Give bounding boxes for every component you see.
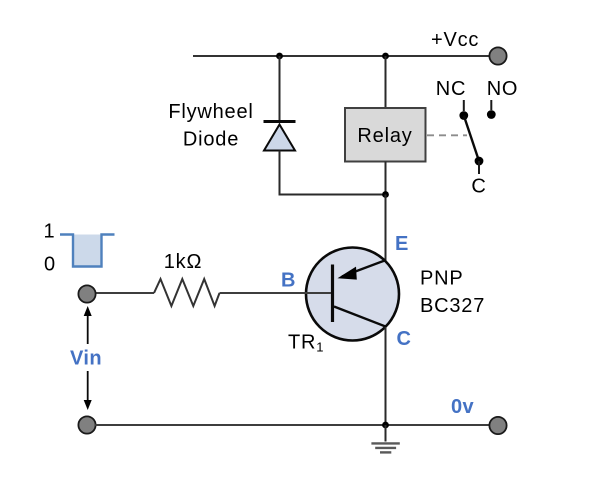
svg-text:1kΩ: 1kΩ <box>164 251 202 273</box>
node junction at relay branch <box>382 53 389 60</box>
svg-text:0: 0 <box>44 254 56 276</box>
svg-text:C: C <box>471 176 486 198</box>
terminal 0v <box>489 417 506 434</box>
Vin double arrow lower <box>87 371 89 404</box>
terminal input Vin <box>78 285 95 302</box>
switch blade NC to C <box>464 116 479 162</box>
svg-text:0v: 0v <box>451 396 475 418</box>
resistor R1 <box>154 279 220 306</box>
terminal +Vcc <box>489 47 506 64</box>
wire base to resistor <box>95 292 154 294</box>
wire diode anode down and right to junction <box>280 151 386 195</box>
node junction at diode branch <box>276 53 283 60</box>
switch C contact dot <box>475 157 484 166</box>
svg-text:1: 1 <box>44 221 56 243</box>
svg-text:Vin: Vin <box>70 348 102 370</box>
transistor TR1 base bar <box>331 265 334 323</box>
node junction below relay <box>382 191 389 198</box>
transistor TR1 collector line <box>334 307 386 327</box>
wire top +Vcc rail <box>193 55 490 57</box>
svg-text:Diode: Diode <box>183 129 239 151</box>
svg-text:BC327: BC327 <box>420 295 485 317</box>
relay K1 body <box>345 108 426 162</box>
svg-text:NC: NC <box>436 78 467 100</box>
wire bottom 0v rail <box>95 424 490 426</box>
ground symbol <box>371 442 399 444</box>
switch NO contact dot <box>487 110 496 119</box>
svg-text:C: C <box>397 328 412 350</box>
wire relay bottom to junction <box>385 162 387 197</box>
dashed link relay to switch <box>427 134 467 136</box>
svg-text:Flywheel: Flywheel <box>168 101 253 123</box>
wire relay top <box>385 56 387 108</box>
pulse waveform <box>73 235 102 267</box>
svg-text:PNP: PNP <box>420 268 464 290</box>
wire junction down to transistor emitter <box>385 195 387 263</box>
node junction at ground <box>382 422 389 429</box>
wire diode branch from rail down to diode <box>279 56 281 122</box>
Vin double arrow upper <box>87 312 89 344</box>
transistor TR1 emitter line with arrow into base <box>342 260 386 276</box>
svg-text:Relay: Relay <box>357 125 412 147</box>
transistor TR1 body <box>306 248 399 341</box>
wire collector down to rail <box>385 327 387 425</box>
svg-text:+Vcc: +Vcc <box>431 29 479 51</box>
svg-text:E: E <box>395 233 409 255</box>
diode D1 flywheel (triangle) <box>264 125 295 151</box>
switch C stub <box>478 161 480 174</box>
switch NO contact stub <box>490 100 492 110</box>
wire resistor to base <box>220 292 332 294</box>
diode D1 flywheel (cathode bar) <box>264 120 296 123</box>
ground stub <box>385 425 387 442</box>
switch NC contact stub <box>463 100 465 111</box>
svg-text:B: B <box>281 270 296 292</box>
svg-text:NO: NO <box>487 78 519 100</box>
switch NC contact dot <box>459 111 468 120</box>
terminal bottom left <box>78 416 95 433</box>
